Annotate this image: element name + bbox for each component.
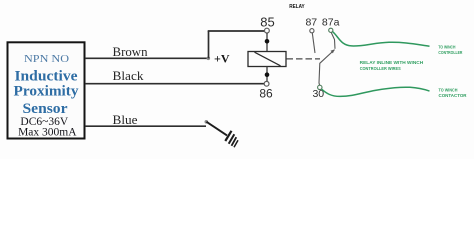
label TO WINCH CONTROLLER: [438, 45, 463, 55]
svg-text:85: 85: [260, 15, 274, 30]
wire 87a lead: [331, 33, 335, 49]
svg-text:86: 86: [259, 87, 273, 101]
terminal 85: [265, 28, 270, 33]
svg-text:CONTACTOR: CONTACTOR: [439, 93, 468, 98]
svg-text:87a: 87a: [322, 17, 340, 29]
svg-text:Proximity: Proximity: [14, 84, 80, 100]
node +V junction: [207, 57, 211, 61]
junction dot above coil: [265, 39, 270, 44]
wire coil to 86: [266, 67, 268, 82]
wire +V riser: [208, 31, 210, 58]
wire black: [85, 83, 264, 85]
wire 87 lead: [312, 33, 315, 53]
green wire to winch controller: [333, 32, 430, 47]
green wire to winch contactor: [322, 87, 430, 96]
svg-text:+V: +V: [214, 52, 230, 66]
wire 85 to coil: [266, 33, 268, 52]
wire brown: [85, 57, 209, 59]
svg-text:CONTROLLER WIRES: CONTROLLER WIRES: [360, 66, 401, 71]
sensor box U1: [8, 42, 85, 138]
label TO WINCH CONTACTOR: [439, 88, 468, 99]
wire blue: [85, 125, 206, 127]
linkage dashed line: [287, 58, 321, 60]
terminal 30: [318, 85, 322, 89]
relay coil K1: [248, 52, 286, 67]
armature barb: [331, 49, 335, 53]
wire to terminal 85: [208, 30, 265, 32]
svg-text:Black: Black: [113, 69, 145, 83]
svg-text:87: 87: [305, 17, 317, 29]
relay armature: [319, 50, 335, 86]
svg-text:TO WINCH: TO WINCH: [439, 88, 459, 93]
terminal 87: [310, 29, 314, 33]
svg-text:Max 300mA: Max 300mA: [18, 127, 77, 139]
svg-text:Brown: Brown: [113, 45, 149, 59]
svg-text:Sensor: Sensor: [23, 101, 68, 117]
wire ground lead: [207, 122, 228, 136]
svg-text:NPN NO: NPN NO: [24, 54, 69, 65]
label RELAY INLINE WITH WINCH CONTROLLER WIRES: [360, 60, 424, 71]
node blue wire end: [205, 120, 209, 124]
svg-text:RELAY: RELAY: [289, 4, 305, 10]
svg-text:Inductive: Inductive: [15, 69, 78, 85]
svg-text:RELAY INLINE WITH WINCH: RELAY INLINE WITH WINCH: [360, 60, 424, 65]
ground: [225, 131, 238, 147]
junction dot below coil: [265, 72, 270, 77]
svg-text:TO WINCH: TO WINCH: [438, 45, 455, 50]
terminal 87a: [329, 28, 333, 32]
svg-text:CONTROLLER: CONTROLLER: [438, 50, 463, 55]
terminal 86: [264, 81, 269, 86]
svg-text:Blue: Blue: [113, 113, 138, 127]
